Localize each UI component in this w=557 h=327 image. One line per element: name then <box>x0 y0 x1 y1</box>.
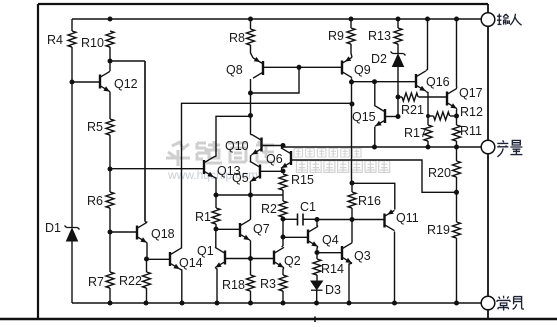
terminal circle input <box>481 13 495 27</box>
svg-text:Q9: Q9 <box>354 63 371 77</box>
resistor R1 <box>212 208 220 224</box>
svg-text:Q7: Q7 <box>253 222 270 236</box>
wire Q10 emitter to Q5 collector <box>251 155 252 162</box>
junction dot Q18 base node <box>108 230 113 235</box>
wire Q15 emitter down to output rail <box>374 127 376 147</box>
diode D1 (zener) <box>65 226 80 242</box>
wire Q8 collector chain down <box>250 79 252 135</box>
svg-text:R16: R16 <box>358 194 381 208</box>
wire Q16 collector to input rail <box>426 19 428 70</box>
transistor Q10 <box>252 134 262 154</box>
junction dot R16 bottom node <box>350 217 355 222</box>
wire C1 left <box>283 218 297 220</box>
wire R1 bottom to node <box>215 224 217 229</box>
wire R13 top stub <box>397 19 399 28</box>
svg-text:R17: R17 <box>404 126 427 140</box>
junction dot R10/Q12 collector node <box>108 59 113 64</box>
svg-text:C1: C1 <box>300 200 316 214</box>
transistor Q5 <box>250 161 260 181</box>
resistor R8 <box>247 29 255 45</box>
svg-text:R1: R1 <box>195 210 211 224</box>
junction dot chain/Q14-collector-wire node <box>350 102 355 107</box>
junction dot divider tap node <box>454 190 459 195</box>
wire input rail left drop to R4 <box>71 19 73 31</box>
wire R18 bottom to common rail <box>250 291 252 303</box>
wire Q15 collector up <box>374 82 376 107</box>
transistor Q11 <box>385 209 395 230</box>
wire compensation node to Q11 base <box>317 219 384 221</box>
transistor Q16 <box>416 71 426 91</box>
wire R3 bottom to common rail <box>282 291 284 303</box>
transistor Q18 <box>137 222 147 242</box>
wire D1 bottom to common rail <box>71 241 73 303</box>
svg-text:R21: R21 <box>401 103 424 117</box>
resistor R18 <box>247 275 255 291</box>
wire R16 bottom stub <box>351 208 353 220</box>
transistor Q4 <box>308 226 318 246</box>
watermark big gray logo text <box>166 141 275 166</box>
wire R19 bottom to common rail <box>456 238 458 303</box>
wire R10 bottom to node <box>109 47 111 61</box>
wire tap node to R19 <box>456 192 458 222</box>
wire R21 left stub <box>398 96 402 98</box>
wire Q7 collector up <box>249 195 252 220</box>
wire R5 bottom to node <box>109 135 111 169</box>
lead tick below border <box>314 317 316 323</box>
svg-text:Q6: Q6 <box>266 152 283 166</box>
junction dot Q3 base node <box>315 250 320 255</box>
wire R21 right to Q17 base <box>419 96 447 98</box>
resistor R17 <box>424 125 432 141</box>
svg-text:D2: D2 <box>371 52 387 66</box>
wire output rail <box>283 146 481 148</box>
junction dot node Q12 base <box>70 80 75 85</box>
wire Q1 collector up to R1 node <box>215 229 217 248</box>
wire D3 bottom to common rail <box>316 290 318 303</box>
wire R6 bottom to node <box>109 208 111 232</box>
svg-text:R3: R3 <box>260 277 276 291</box>
transistor Q13 <box>204 157 214 177</box>
junction dot Q17 emitter node <box>454 114 459 119</box>
junction dot Q8 base loop node <box>297 65 302 70</box>
wire Q8 base loop <box>251 67 300 93</box>
wire Q7 emitter down <box>249 240 252 258</box>
wire Q4 collector up <box>317 220 318 227</box>
wire R14 bottom to D3 <box>316 275 318 281</box>
wire Q18 collector up <box>145 61 147 222</box>
junction dot Q4 base node <box>281 235 286 240</box>
wire node down to Q15 base node <box>397 97 399 117</box>
wire C1 right <box>304 218 318 220</box>
svg-text:R15: R15 <box>291 173 314 187</box>
svg-text:Q16: Q16 <box>426 75 450 89</box>
wire output rail to R20 <box>456 147 458 161</box>
wire tail current node <box>216 194 283 196</box>
svg-text:Q3: Q3 <box>354 249 371 263</box>
svg-text:Q15: Q15 <box>352 110 376 124</box>
transistor Q2 <box>274 247 284 267</box>
wire Q3 base <box>317 252 341 254</box>
wire Q2 collector up <box>282 237 284 247</box>
wire drive node to Q16 base <box>352 81 416 83</box>
resistor R14 <box>313 259 321 275</box>
wire Q10 base <box>262 145 284 147</box>
junction dot R21 left node <box>396 95 401 100</box>
svg-text:R10: R10 <box>81 36 104 50</box>
resistor R2 <box>279 201 287 217</box>
wire R11 top stub <box>456 116 458 125</box>
wire C1 node down continue <box>282 219 284 237</box>
junction dot Q9 collector node <box>349 80 354 85</box>
wire Q12 collector stub <box>109 61 111 71</box>
resistor R6 <box>106 192 114 208</box>
resistor R20 <box>453 161 461 177</box>
junction dot Q7 base node <box>214 227 219 232</box>
svg-text:R8: R8 <box>229 31 245 45</box>
wire Q17 collector to input rail <box>456 19 459 88</box>
wire Q15 base <box>385 116 398 118</box>
terminal label common <box>497 296 524 311</box>
svg-text:R14: R14 <box>321 262 344 276</box>
transistor Q17 <box>447 88 457 108</box>
resistor R4 <box>68 31 76 47</box>
svg-text:Q10: Q10 <box>225 139 249 153</box>
wire Q1 emitter to common rail <box>216 268 218 303</box>
wire Q18 base <box>110 231 136 233</box>
wire Q6 emitter join <box>281 169 283 171</box>
junction dot C1 right / Q4 collector node <box>315 217 320 222</box>
wire R8 bottom to Q8 emitter <box>251 45 254 58</box>
junction dot C1 left node <box>281 217 286 222</box>
transistor Q6 <box>281 148 291 168</box>
svg-text:Q17: Q17 <box>459 86 483 100</box>
resistor R21 (horizontal) <box>402 93 418 101</box>
junction dot Q14 base node <box>144 257 149 262</box>
svg-text:R7: R7 <box>88 275 104 289</box>
wire Q13 emitter down <box>214 177 216 195</box>
wire Q14 emitter to common rail <box>180 269 182 303</box>
wire Q12 emitter to R5 <box>109 92 111 119</box>
wire Q14 collector up long <box>180 103 352 249</box>
resistor R5 <box>106 119 114 135</box>
junction dots on common rail <box>108 301 460 306</box>
wire R12 left stub <box>428 115 434 117</box>
wire Q6 base to divider tap <box>291 160 456 192</box>
wire Q13 collector up to mirror node <box>214 116 251 157</box>
resistor R7 <box>106 272 114 288</box>
junction dot mirror to Q13 node <box>248 113 253 118</box>
wire R11 bottom to output rail <box>456 141 458 147</box>
svg-text:R4: R4 <box>47 33 63 47</box>
svg-text:Q12: Q12 <box>114 77 138 91</box>
wire node to R18 <box>250 259 252 276</box>
wire Q9 collector down to node <box>351 79 354 83</box>
wire node to R14 <box>316 253 318 260</box>
svg-text:R5: R5 <box>87 120 103 134</box>
wire Q13 base <box>110 168 203 170</box>
junction dot Q10 base / output node <box>281 143 286 148</box>
watermark small row A <box>294 149 361 158</box>
diode D3 <box>311 281 323 290</box>
resistor R13 <box>394 28 402 44</box>
svg-text:R12: R12 <box>460 105 483 119</box>
svg-text:Q1: Q1 <box>197 244 214 258</box>
wire R2 bottom to C1 node <box>282 217 284 219</box>
wire R15 bottom to tail node <box>282 190 284 195</box>
transistor Q9 <box>342 56 352 77</box>
junction dots on input rail <box>108 17 460 22</box>
svg-text:Q4: Q4 <box>322 233 339 247</box>
wire R9 bottom to Q9 emitter <box>351 44 352 57</box>
terminal circle common <box>481 296 495 310</box>
wire Q4 emitter down <box>317 247 318 252</box>
resistor R3 <box>279 275 287 291</box>
resistor R22 <box>143 272 151 288</box>
capacitor C1 <box>298 214 304 226</box>
svg-text:R13: R13 <box>368 29 391 43</box>
wire R22 bottom to common rail <box>146 288 148 303</box>
svg-text:D3: D3 <box>325 283 341 297</box>
resistor R10 <box>106 31 114 47</box>
wire Q3 collector up to R16 node <box>351 220 353 243</box>
wire R7 bottom to common rail <box>109 288 111 303</box>
wire Q18 emitter down to node <box>146 243 148 259</box>
wire node to R22 <box>146 259 148 272</box>
wire Q6 collector join to output node <box>281 146 283 149</box>
wire R12 right stub <box>450 115 457 117</box>
wire input rail <box>72 18 481 20</box>
junction dot Q8 collector/base loop node <box>248 91 253 96</box>
wire Q7 base <box>216 228 239 230</box>
wire tail node to R2 <box>282 195 284 201</box>
wire Q4 base <box>283 236 307 238</box>
wire Q1 Q2 base link <box>225 258 273 260</box>
wire Q10 collector join <box>251 134 252 136</box>
wire R8 top stub <box>250 19 252 29</box>
wire R17 bottom to output rail <box>427 141 429 147</box>
terminal label input <box>497 14 522 26</box>
diode D2 (zener) <box>391 52 406 67</box>
junction dot Q5 emitter node <box>248 193 253 198</box>
transistor Q1 <box>215 247 225 267</box>
svg-text:R9: R9 <box>328 29 344 43</box>
svg-text:Q8: Q8 <box>226 63 243 77</box>
junction dots on output rail <box>372 145 459 150</box>
svg-text:D1: D1 <box>45 221 61 235</box>
svg-text:R19: R19 <box>427 223 450 237</box>
transistor Q12 <box>100 71 110 91</box>
svg-text:R18: R18 <box>222 278 245 292</box>
svg-text:R11: R11 <box>460 124 482 138</box>
wire R20 bottom to tap node <box>456 177 458 192</box>
wire Q5 emitter down <box>249 182 252 195</box>
wire Q8 base to mirror node <box>263 66 341 68</box>
wire node to R6 <box>109 169 111 192</box>
transistor Q14 <box>170 249 180 269</box>
transistor Q3 <box>342 243 352 263</box>
wire Q14 base <box>147 258 169 260</box>
junction dot Q13 emitter node <box>214 193 219 198</box>
wire Q9 collector chain x=352 <box>351 82 353 183</box>
wire R13 bottom to D2 <box>397 44 399 54</box>
transistor Q15 <box>375 106 385 126</box>
wire node down to R1 <box>215 195 217 208</box>
svg-text:Q2: Q2 <box>284 254 301 268</box>
terminal circle output <box>481 140 495 154</box>
svg-text:R6: R6 <box>87 194 103 208</box>
junction dot Q1/Q2 base node <box>248 256 253 261</box>
wire R4 bottom to D1 <box>71 47 73 227</box>
wire R16 top stub <box>351 183 353 192</box>
resistor R19 <box>453 222 461 238</box>
transistor Q8 <box>253 57 263 78</box>
wire Q12 base <box>72 81 99 83</box>
svg-text:R20: R20 <box>428 166 451 180</box>
terminal label output <box>497 140 522 156</box>
svg-text:Q5: Q5 <box>232 171 249 185</box>
wire Q5 collector join <box>249 161 252 163</box>
junction dot Q15 collector node <box>372 79 377 84</box>
junction dot R16 top node <box>350 181 355 186</box>
wire Q3 emitter to common rail <box>349 263 352 303</box>
wire Q11 collector to common rail <box>394 232 396 304</box>
wire x=145 vertical to Q18 collector <box>144 61 146 222</box>
wire common rail <box>72 302 481 304</box>
wire Q16 emitter down <box>426 92 428 125</box>
junction dot R12 left node <box>426 114 430 118</box>
svg-text:R2: R2 <box>261 202 277 216</box>
watermark small row B <box>297 161 390 173</box>
wire Q17 emitter down <box>456 109 459 116</box>
resistor R11 <box>453 125 461 141</box>
svg-text:Q11: Q11 <box>396 211 419 225</box>
resistor R12 (horizontal) <box>434 112 450 120</box>
wire node to R7 <box>109 232 111 272</box>
transistor Q7 <box>240 220 250 240</box>
resistor R16 <box>348 192 356 208</box>
junction dot Q5 base / R15 node <box>281 169 286 174</box>
wire node to x=145 corner <box>110 60 145 62</box>
resistor R9 <box>347 28 355 44</box>
resistor R15 <box>279 174 287 190</box>
wire R16 node to Q11 emitter corner <box>352 183 395 209</box>
wire Q2 emitter down to R3 <box>283 268 284 275</box>
junction dot Q15 base node <box>396 114 401 119</box>
svg-text:Q14: Q14 <box>179 256 203 270</box>
svg-text:R22: R22 <box>119 274 142 288</box>
junction dot Q13 base node <box>108 167 113 172</box>
wire D2 bottom to R21 node <box>397 67 399 98</box>
wire Q5 base <box>260 170 283 172</box>
wire R9 top stub <box>350 19 352 28</box>
svg-text:Q18: Q18 <box>151 227 175 241</box>
